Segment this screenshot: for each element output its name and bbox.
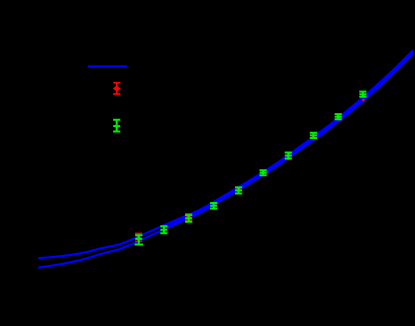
red point 4 diamond	[212, 207, 216, 210]
green point 10 error bar and plus marker	[359, 92, 366, 97]
red point 5 diamond	[236, 187, 241, 191]
green point 7 error bar and plus marker	[285, 153, 292, 159]
red point 3 diamond	[185, 215, 192, 221]
legend red sample diamond	[113, 85, 121, 92]
red point 3 error bar	[185, 214, 192, 221]
green point 3 error bar and plus marker	[185, 215, 192, 222]
red point 9 diamond	[336, 117, 340, 120]
red point 8 diamond	[312, 135, 316, 138]
legend red sample error bar	[113, 83, 120, 94]
green point 2 error bar and plus marker	[160, 226, 167, 233]
wire: merged band filler between curves	[190, 52, 413, 216]
legend green sample error bar with plus marker	[113, 120, 120, 132]
curve lower (blue theory curve 2)	[38, 54, 413, 268]
curve upper (blue theory curve 1)	[38, 50, 413, 258]
green point 9 error bar and plus marker	[335, 114, 342, 119]
green point 4 error bar and plus marker	[210, 203, 217, 209]
red point 1 error bar	[135, 234, 142, 242]
green point 6 error bar and plus marker	[260, 170, 267, 175]
green point 5 error bar and plus marker	[235, 187, 242, 193]
wire: partial filler where curves begin to merge	[166, 216, 190, 227]
red point 1 diamond	[135, 235, 142, 241]
green point 8 error bar and plus marker	[310, 133, 317, 138]
red point 6 diamond	[261, 172, 265, 175]
red point 7 diamond	[286, 156, 291, 160]
red point 2 diamond	[162, 228, 165, 231]
green point 1 error bar and plus marker	[135, 235, 143, 244]
red point 10 diamond	[362, 98, 366, 101]
legend blue line sample	[88, 65, 127, 67]
